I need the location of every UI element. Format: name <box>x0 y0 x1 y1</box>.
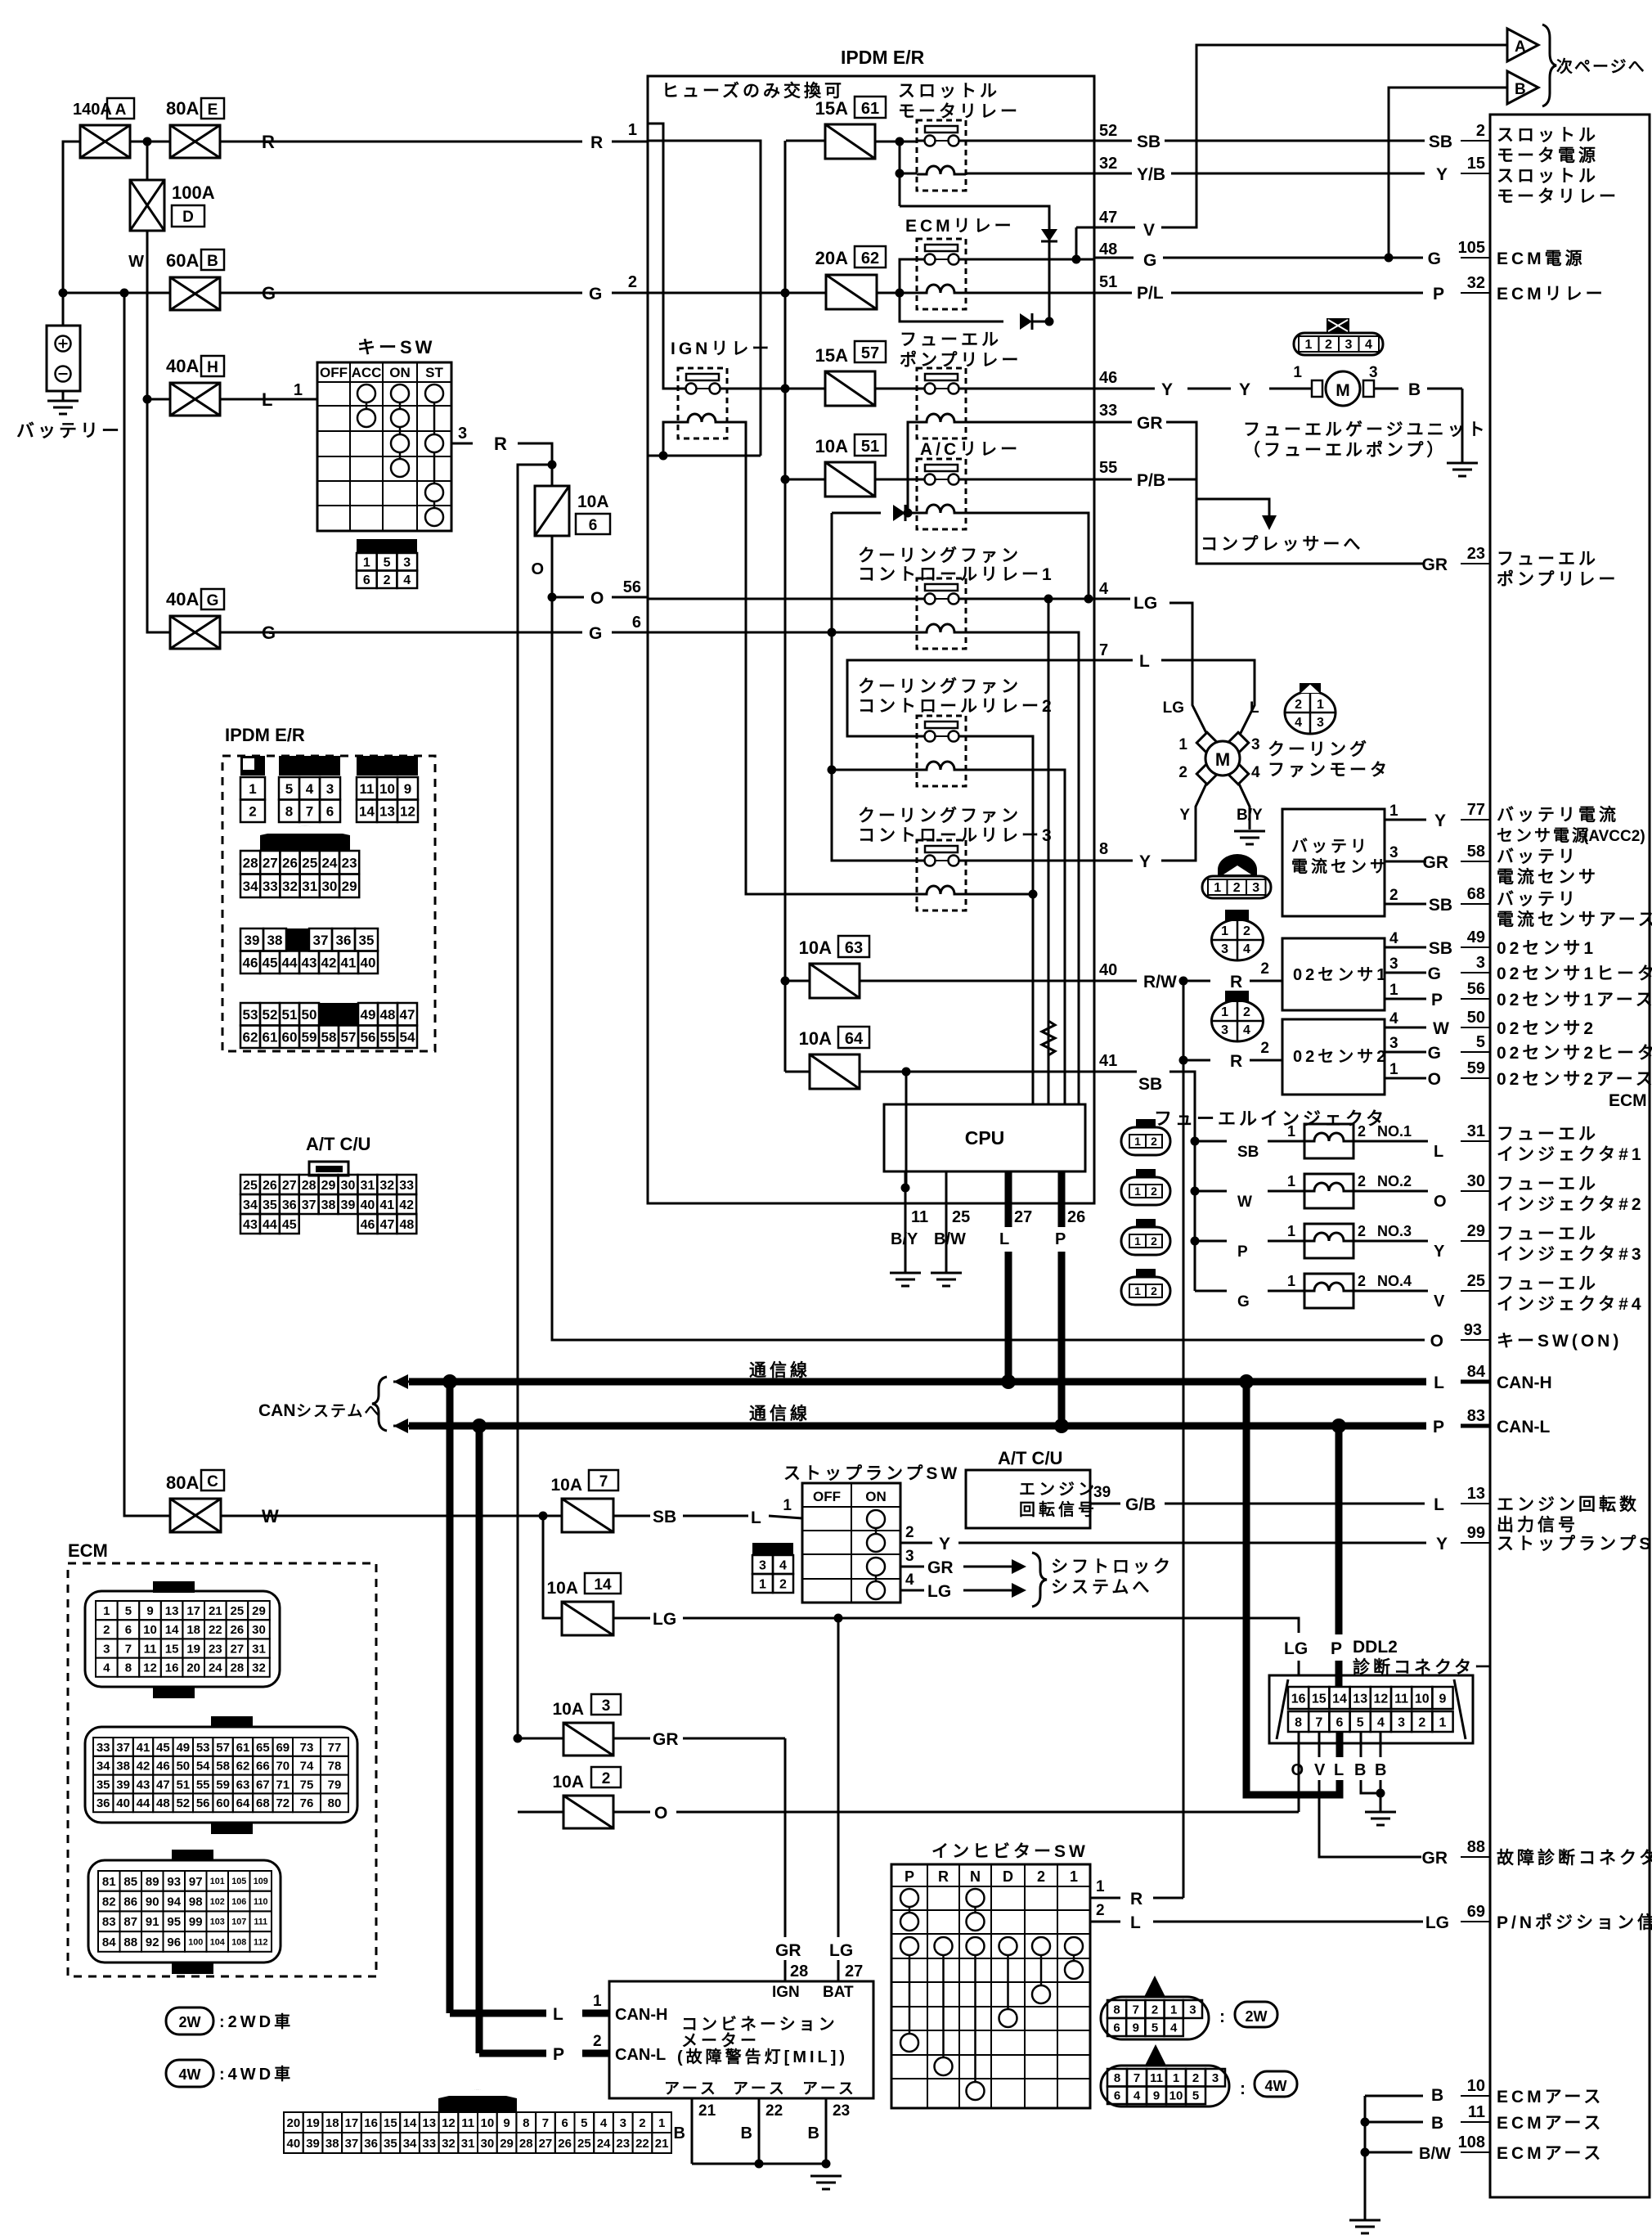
svg-text:15: 15 <box>165 1642 179 1656</box>
wire relay1 contact out to pin4 <box>966 598 1094 600</box>
svg-text:31: 31 <box>1467 1122 1485 1140</box>
svg-text:Y: Y <box>1434 812 1446 830</box>
svg-text:W: W <box>128 253 144 271</box>
svg-text:51: 51 <box>861 438 879 456</box>
wire relay1 out down to CPU <box>1048 599 1050 1104</box>
node G to next page B <box>1385 254 1394 263</box>
svg-text:4: 4 <box>1295 716 1302 730</box>
svg-text:47: 47 <box>380 1218 395 1232</box>
svg-text:2: 2 <box>1476 122 1485 140</box>
svg-text:15: 15 <box>384 2116 397 2130</box>
wire ECM relay contact feed <box>900 259 1003 321</box>
svg-text:10A: 10A <box>550 1476 582 1495</box>
svg-text:フューエルインジェクタ: フューエルインジェクタ <box>1154 1108 1387 1129</box>
svg-text:3: 3 <box>1389 1035 1398 1052</box>
svg-text:40A: 40A <box>166 589 199 609</box>
svg-text:13: 13 <box>1467 1485 1485 1503</box>
svg-text:ポンプリレー: ポンプリレー <box>1497 569 1618 589</box>
svg-text:108: 108 <box>231 1937 246 1947</box>
wire injector NO.2 feed <box>1191 1187 1200 1196</box>
svg-text:101: 101 <box>210 1877 225 1886</box>
fuse 10A 14 <box>562 1602 613 1635</box>
svg-text:39: 39 <box>116 1778 130 1792</box>
wire ECM ground B/W 108 <box>1361 2148 1370 2157</box>
node R rail at fuse3 <box>514 1734 523 1743</box>
svg-text:61: 61 <box>263 1029 278 1045</box>
svg-text:2: 2 <box>1260 1040 1269 1057</box>
svg-text:02センサ2: 02センサ2 <box>1293 1048 1389 1066</box>
fuse 40A H <box>170 383 220 416</box>
svg-text:SB: SB <box>1429 133 1452 151</box>
svg-text:バッテリー: バッテリー <box>16 420 123 441</box>
svg-text:1: 1 <box>1096 1878 1105 1895</box>
svg-text:19: 19 <box>186 1642 200 1656</box>
svg-text:R: R <box>1230 973 1242 991</box>
svg-text:23: 23 <box>342 855 357 870</box>
svg-text:21: 21 <box>655 2137 669 2151</box>
svg-text:46: 46 <box>361 1218 375 1232</box>
svg-text:R: R <box>262 132 275 152</box>
svg-text:52: 52 <box>176 1796 190 1810</box>
svg-text:39: 39 <box>306 2137 320 2151</box>
combination meter box <box>609 1981 873 2098</box>
svg-text:CPU: CPU <box>965 1127 1005 1149</box>
svg-text:34: 34 <box>243 879 258 894</box>
svg-text:38: 38 <box>116 1760 130 1774</box>
svg-text:LG: LG <box>1163 699 1184 717</box>
svg-text:4: 4 <box>1099 580 1109 598</box>
svg-text:60: 60 <box>216 1796 230 1810</box>
battery sensor pin3 GR58 <box>1385 861 1412 863</box>
svg-text:11: 11 <box>461 2116 474 2130</box>
O2-1 pin1 P56 <box>1385 998 1412 1000</box>
svg-text:バッテリ電流: バッテリ電流 <box>1497 805 1619 825</box>
svg-text:25: 25 <box>577 2137 591 2151</box>
svg-text:33: 33 <box>263 879 278 894</box>
svg-text:P: P <box>1331 1639 1342 1658</box>
svg-text:2: 2 <box>249 803 256 819</box>
svg-text:B: B <box>741 2124 752 2142</box>
svg-text:IGNリレー: IGNリレー <box>671 339 772 358</box>
wire LG pin4 to fan <box>1094 598 1130 600</box>
wire O from fuse2 to DDL2 pin8 <box>613 1811 650 1814</box>
wire Y pin46 to fuel gauge <box>1094 388 1155 390</box>
wire ECM relay contact to pin48 <box>966 259 1094 261</box>
svg-text:A/Cリレー: A/Cリレー <box>920 440 1021 459</box>
svg-text:CAN-H: CAN-H <box>615 2006 667 2024</box>
stop lamp contacts <box>875 1519 878 1543</box>
O2-2 pin1 O59 <box>1385 1077 1412 1080</box>
wire AC relay contact to pin55 <box>875 479 917 481</box>
svg-text:L: L <box>1250 699 1259 717</box>
fuse 80A E <box>170 125 220 158</box>
svg-text:41: 41 <box>1099 1052 1117 1070</box>
IPDM connector 23-34 <box>260 825 350 851</box>
svg-text:37: 37 <box>345 2137 359 2151</box>
node between fuse A and E <box>143 137 152 146</box>
svg-text:40: 40 <box>287 2137 301 2151</box>
svg-text:28: 28 <box>243 855 258 870</box>
svg-text:CAN-H: CAN-H <box>1497 1374 1552 1392</box>
IPDM connector 3-8 <box>279 756 340 776</box>
CPU pin 25 stub <box>945 1171 948 1273</box>
svg-text:3: 3 <box>1221 1023 1228 1037</box>
svg-text:25: 25 <box>302 855 317 870</box>
svg-text:2: 2 <box>1418 1715 1425 1729</box>
svg-text:18: 18 <box>186 1623 200 1637</box>
node IGN coil <box>659 452 668 461</box>
fuse 15A 61 <box>825 124 875 159</box>
wire P/B pin55 to compressor <box>1094 479 1132 481</box>
diode AC coil <box>893 505 905 521</box>
svg-text:92: 92 <box>146 1936 159 1949</box>
wire diode branch to G <box>900 206 1049 321</box>
svg-text:D: D <box>1003 1868 1013 1885</box>
svg-text:85: 85 <box>123 1875 137 1889</box>
svg-text:4: 4 <box>1377 1715 1385 1729</box>
node +B junction <box>59 289 68 298</box>
svg-text:90: 90 <box>146 1895 159 1909</box>
svg-text:77: 77 <box>328 1741 342 1755</box>
svg-text:3: 3 <box>1317 716 1324 730</box>
svg-text:B: B <box>674 2124 685 2142</box>
svg-text:7: 7 <box>599 1473 608 1490</box>
CPU pin 27 L wire <box>1005 1171 1012 1227</box>
wire battery to +B rail <box>62 293 65 326</box>
node DDL2 ground <box>1376 1789 1385 1798</box>
svg-text:Y/B: Y/B <box>1137 165 1165 184</box>
wire +B rail to fuse B <box>63 292 170 294</box>
IPDM connector 1-2 <box>240 756 265 776</box>
svg-text:75: 75 <box>300 1778 314 1792</box>
wire injector NO.4 feed <box>1195 1290 1227 1293</box>
node CAN-H DDL2 <box>1239 1374 1254 1389</box>
svg-text:1: 1 <box>1389 803 1398 820</box>
svg-text:1: 1 <box>1287 1273 1295 1289</box>
svg-text:4: 4 <box>905 1571 914 1589</box>
injector connector NO.2 <box>1121 1177 1170 1205</box>
battery sensor pin1 Y77 <box>1385 819 1412 821</box>
svg-text:3: 3 <box>1221 942 1228 956</box>
svg-text:P: P <box>1433 1418 1444 1436</box>
svg-text:2: 2 <box>628 273 637 291</box>
svg-text:24: 24 <box>209 1661 222 1675</box>
svg-text:1: 1 <box>1134 1185 1141 1198</box>
svg-text:G: G <box>589 285 602 303</box>
svg-text:G: G <box>1428 1044 1441 1063</box>
svg-text:83: 83 <box>102 1915 116 1929</box>
node relay2 coil G <box>828 766 837 775</box>
svg-text:メーター: メーター <box>681 2031 760 2050</box>
wire O to IPDM pin 56 <box>552 596 584 599</box>
svg-text:32: 32 <box>282 879 298 894</box>
svg-text:4: 4 <box>600 2116 608 2130</box>
svg-text:39: 39 <box>245 933 260 948</box>
svg-text:42: 42 <box>399 1198 414 1212</box>
svg-text:3: 3 <box>103 1642 110 1656</box>
svg-text:7: 7 <box>125 1642 132 1656</box>
svg-text:46: 46 <box>156 1760 170 1774</box>
svg-text:R: R <box>1130 1890 1142 1909</box>
svg-text:2: 2 <box>1358 1123 1366 1140</box>
svg-text:LG: LG <box>653 1610 676 1629</box>
svg-text:37: 37 <box>116 1741 130 1755</box>
svg-text:SB: SB <box>1429 896 1452 915</box>
wire AC coil feed from G <box>832 512 881 515</box>
svg-text:56: 56 <box>196 1796 210 1810</box>
wire G to IPDM pin2 <box>220 292 582 294</box>
svg-text:アース: アース <box>802 2080 857 2097</box>
svg-text:4W: 4W <box>179 2066 201 2083</box>
node G line branch <box>828 628 837 637</box>
svg-text:2: 2 <box>103 1623 110 1637</box>
svg-text:53: 53 <box>196 1741 210 1755</box>
svg-text:H: H <box>207 359 218 376</box>
svg-text:3: 3 <box>326 781 334 797</box>
svg-text:スロットル: スロットル <box>1497 126 1599 145</box>
svg-text:33: 33 <box>1099 402 1117 420</box>
svg-text:38: 38 <box>321 1198 336 1212</box>
svg-text:29: 29 <box>321 1179 336 1193</box>
svg-text:28: 28 <box>231 1661 245 1675</box>
svg-text:93: 93 <box>167 1875 181 1889</box>
svg-text:ストップランプSW: ストップランプSW <box>1497 1535 1652 1553</box>
ground fuel pump <box>1447 462 1478 465</box>
node after fuse61 <box>896 137 905 146</box>
svg-text:L: L <box>1434 1495 1444 1514</box>
wire to fuse64 <box>785 1071 810 1073</box>
svg-text:47: 47 <box>400 1007 415 1023</box>
wire relay1 contact feed O <box>649 598 917 600</box>
svg-text:B/Y: B/Y <box>1237 807 1263 824</box>
svg-text:71: 71 <box>276 1778 290 1792</box>
svg-text:93: 93 <box>1464 1321 1482 1339</box>
svg-text:94: 94 <box>167 1895 181 1909</box>
svg-text:2: 2 <box>1243 1005 1250 1019</box>
svg-text:69: 69 <box>276 1741 290 1755</box>
svg-text:B: B <box>1408 380 1421 399</box>
svg-text:O: O <box>531 560 544 578</box>
svg-text:24: 24 <box>321 855 337 870</box>
svg-text:P: P <box>553 2045 564 2064</box>
svg-text:W: W <box>1237 1194 1252 1211</box>
svg-text:29: 29 <box>1467 1222 1485 1240</box>
svg-text:4: 4 <box>1134 2089 1141 2103</box>
svg-text:Y: Y <box>1179 807 1190 824</box>
svg-text:10: 10 <box>481 2116 495 2130</box>
brace shift lock <box>1032 1553 1047 1607</box>
svg-text:N: N <box>970 1868 981 1885</box>
svg-text:2: 2 <box>1151 2003 1158 2016</box>
svg-text:7: 7 <box>1099 641 1108 659</box>
svg-text:1: 1 <box>103 1604 110 1618</box>
node diode junction <box>1045 317 1054 326</box>
CPU box <box>884 1104 1085 1171</box>
svg-text:2: 2 <box>1178 764 1187 781</box>
node CAN-H CPU <box>1001 1374 1016 1389</box>
svg-text:27: 27 <box>231 1642 245 1656</box>
wire G/B to ECM pin13 <box>1090 1503 1120 1505</box>
svg-text:1: 1 <box>593 1993 602 2010</box>
svg-text:D: D <box>182 209 194 226</box>
ground CPU 11 <box>890 1272 921 1275</box>
svg-text:4: 4 <box>1389 1010 1398 1027</box>
fan connector 21/43 <box>1285 691 1336 734</box>
svg-text:50: 50 <box>302 1007 317 1023</box>
wire R feed to IPDM pin1 <box>220 141 582 143</box>
svg-text:54: 54 <box>400 1029 415 1045</box>
svg-text:通信線: 通信線 <box>749 1404 810 1423</box>
wire V pin47 to next page A <box>1076 227 1135 229</box>
svg-text:40: 40 <box>361 955 376 970</box>
wire IGN contact out <box>727 388 785 390</box>
arrow compressor <box>1262 515 1277 530</box>
fuse 60A B <box>170 277 220 310</box>
svg-text:21: 21 <box>209 1604 222 1618</box>
CPU pin 26 P wire <box>1058 1171 1066 1227</box>
svg-text:02センサ1: 02センサ1 <box>1293 966 1389 984</box>
svg-text:1: 1 <box>1214 881 1221 895</box>
svg-text:1: 1 <box>1221 924 1228 938</box>
wire G to relay1 coil <box>649 632 917 634</box>
wire Y/B pin32 to ECM pin15 <box>1094 173 1132 175</box>
ECM connector B 33-80 <box>211 1716 253 1728</box>
wire IGN coil left <box>663 422 678 456</box>
svg-text:62: 62 <box>861 250 879 268</box>
svg-text:15: 15 <box>1312 1692 1327 1706</box>
svg-text:コントロールリレー1: コントロールリレー1 <box>858 565 1055 584</box>
svg-text:82: 82 <box>102 1895 116 1909</box>
O2-2 pin4 W50 <box>1385 1027 1412 1029</box>
stop lamp connector 34/12 <box>752 1543 793 1555</box>
svg-text:2: 2 <box>905 1524 914 1541</box>
svg-text:コンビネーション: コンビネーション <box>681 2015 838 2034</box>
svg-text:CAN: CAN <box>258 1401 296 1420</box>
wire GR pin33 to ECM pin23 <box>1094 421 1132 424</box>
svg-text:モータリレー: モータリレー <box>1497 187 1619 206</box>
svg-text:Y: Y <box>1239 380 1250 399</box>
svg-text:4: 4 <box>1251 764 1260 781</box>
svg-text:12: 12 <box>442 2116 456 2130</box>
svg-text:62: 62 <box>243 1029 258 1045</box>
svg-text:99: 99 <box>1467 1524 1485 1542</box>
next page triangle A <box>1507 29 1538 61</box>
svg-text:B/W: B/W <box>934 1230 966 1248</box>
svg-text:23: 23 <box>209 1642 222 1656</box>
svg-text:R: R <box>494 434 507 454</box>
wire relay1 coil out to CPU <box>966 632 1079 1104</box>
svg-text:GR: GR <box>653 1730 679 1749</box>
svg-text:コンプレッサーへ: コンプレッサーへ <box>1201 535 1363 554</box>
svg-text:73: 73 <box>300 1741 314 1755</box>
wire injector NO.3 to ECM <box>1353 1240 1428 1243</box>
svg-text:1: 1 <box>1287 1123 1295 1140</box>
wire inhibitor pin2 L to ECM pin69 <box>1090 1921 1120 1923</box>
svg-text:センサ電源: センサ電源 <box>1497 826 1591 845</box>
wire O down to keySW(ON) line <box>552 597 1425 1340</box>
svg-text:LG: LG <box>1284 1639 1308 1658</box>
svg-text:B: B <box>808 2124 819 2142</box>
svg-text:ファンモータ: ファンモータ <box>1268 761 1390 780</box>
svg-text:48: 48 <box>156 1796 170 1810</box>
svg-text:50: 50 <box>1467 1009 1485 1027</box>
svg-text:2: 2 <box>1233 881 1241 895</box>
svg-text:2W: 2W <box>179 2014 201 2030</box>
svg-text:02センサ2: 02センサ2 <box>1497 1019 1596 1038</box>
svg-text:51: 51 <box>176 1778 190 1792</box>
svg-text:O: O <box>1430 1332 1443 1351</box>
svg-text:35: 35 <box>263 1198 277 1212</box>
svg-text:2: 2 <box>1151 1234 1157 1248</box>
svg-text:70: 70 <box>276 1760 290 1774</box>
svg-text:33: 33 <box>422 2137 436 2151</box>
svg-text:1: 1 <box>1389 1061 1398 1078</box>
svg-text:P/L: P/L <box>1137 284 1164 303</box>
svg-text:ON: ON <box>389 365 411 380</box>
svg-text:B: B <box>207 253 218 270</box>
svg-text:G: G <box>262 283 276 303</box>
svg-text:フューエル: フューエル <box>1497 1275 1599 1293</box>
wire LG from fuse14 <box>613 1617 650 1620</box>
svg-text:27: 27 <box>845 1962 863 1980</box>
svg-text:26: 26 <box>282 855 298 870</box>
svg-text:バッテリ: バッテリ <box>1497 890 1578 909</box>
wire SB pin52 to ECM pin2 <box>1094 140 1132 142</box>
svg-text:4: 4 <box>403 573 411 587</box>
ECM connector C 81-112 <box>172 1850 213 1861</box>
svg-text:2: 2 <box>602 1770 611 1787</box>
svg-text:クーリングファン: クーリングファン <box>858 806 1021 825</box>
fuse 10A 3 <box>563 1723 613 1756</box>
svg-text:(故障警告灯[MIL]): (故障警告灯[MIL]) <box>677 2047 848 2066</box>
svg-text:L: L <box>999 1230 1009 1248</box>
svg-text:78: 78 <box>328 1760 342 1774</box>
svg-text:26: 26 <box>558 2137 572 2151</box>
svg-text:8: 8 <box>1099 840 1108 858</box>
svg-text:41: 41 <box>379 1198 394 1212</box>
svg-text:3: 3 <box>905 1548 914 1565</box>
wire P/L pin51 to ECM pin32 <box>1094 292 1132 294</box>
svg-text::: : <box>1219 2007 1225 2026</box>
svg-text:8: 8 <box>285 803 293 819</box>
svg-text:R: R <box>1230 1052 1242 1071</box>
svg-text:2: 2 <box>1358 1223 1366 1239</box>
svg-text:14: 14 <box>359 803 375 819</box>
wire meter CAN-H stub <box>450 2010 546 2017</box>
ground ECM <box>1349 2219 1380 2222</box>
wire drop to throttle coil <box>899 142 901 206</box>
svg-text:64: 64 <box>845 1030 864 1048</box>
svg-text:L: L <box>751 1508 761 1527</box>
wire ECM ground B10 <box>1365 2095 1423 2097</box>
svg-text:68: 68 <box>1467 885 1485 903</box>
brace CAN system <box>372 1377 387 1431</box>
svg-text:O: O <box>1428 1070 1441 1089</box>
wire fuse62 to ECM relay coil <box>877 292 917 294</box>
brace next page <box>1542 25 1556 106</box>
svg-text:9: 9 <box>503 2116 510 2130</box>
svg-text:67: 67 <box>256 1778 270 1792</box>
svg-text:28: 28 <box>790 1962 808 1980</box>
battery バッテリー <box>47 326 80 391</box>
svg-text:IPDM E/R: IPDM E/R <box>225 725 305 745</box>
wire LG to DDL2 pin16 <box>1288 1618 1299 1633</box>
svg-text:2: 2 <box>1295 698 1302 712</box>
wire injector NO.3 feed <box>1191 1237 1200 1246</box>
svg-text:O: O <box>654 1804 667 1823</box>
svg-text:L: L <box>1139 652 1150 671</box>
wire G branch for coils <box>832 513 917 861</box>
